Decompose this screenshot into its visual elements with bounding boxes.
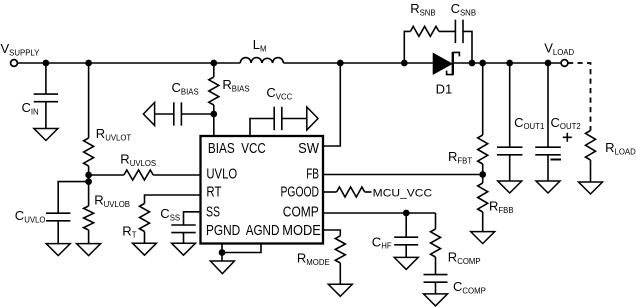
pin label PGND: [206, 223, 240, 239]
svg-text:PGND: PGND: [206, 223, 240, 239]
svg-text:AGND: AGND: [246, 223, 280, 239]
svg-text:SS: SS: [206, 205, 220, 221]
op-amp U1 boost controller IC: [201, 136, 324, 244]
pin label AGND: [246, 223, 280, 239]
capacitor CUVLO: [46, 182, 89, 244]
wire FB: [323, 174, 483, 176]
ground CIN: [34, 129, 58, 141]
ground CCOMP: [424, 294, 448, 306]
node COUT2 junction: [545, 60, 552, 67]
svg-text:CHF: CHF: [372, 234, 392, 250]
wire COMP: [323, 212, 436, 214]
label RLOAD: [605, 140, 636, 156]
label COUT2: [551, 115, 581, 131]
pin label FB: [306, 167, 319, 183]
svg-text:CUVLO: CUVLO: [15, 208, 46, 224]
wire D1 to VLOAD: [454, 62, 561, 64]
label VSUPPLY: [1, 41, 41, 57]
terminal VSUPPLY: [11, 60, 18, 67]
ground CUVLO: [46, 244, 70, 256]
label D1: [436, 82, 453, 97]
svg-text:RUVLOB: RUVLOB: [94, 193, 130, 209]
pin label SS: [206, 205, 220, 221]
resistor RBIAS: [209, 63, 219, 136]
svg-text:FB: FB: [306, 167, 319, 183]
label COUT1: [514, 115, 544, 131]
label CCOMP: [453, 279, 486, 295]
svg-text:COUT1: COUT1: [514, 115, 544, 131]
resistor RT: [140, 195, 201, 243]
ground RMODE: [328, 284, 352, 296]
svg-text:VCC: VCC: [241, 141, 265, 157]
node input junction RBIAS: [210, 60, 217, 67]
resistor RUVLOS: [89, 170, 201, 180]
pin label BIAS: [208, 141, 235, 157]
ground CSS: [172, 243, 196, 255]
ground RFBB: [471, 232, 495, 244]
net label MCU_VCC: [373, 188, 433, 200]
label CIN: [22, 100, 39, 116]
svg-text:LM: LM: [253, 37, 267, 53]
svg-text:COUT2: COUT2: [551, 115, 581, 131]
svg-text:VSUPPLY: VSUPPLY: [1, 41, 41, 57]
label CVCC: [266, 85, 292, 101]
pin label COMP: [283, 205, 319, 221]
svg-text:COMP: COMP: [283, 205, 319, 221]
wire PGND: [221, 244, 223, 253]
label RFBT: [448, 149, 472, 165]
inductor LM: [240, 58, 283, 63]
svg-text:RUVLOT: RUVLOT: [96, 126, 132, 142]
svg-text:MCU_VCC: MCU_VCC: [373, 188, 433, 200]
label CUVLO: [15, 208, 46, 224]
svg-text:CCOMP: CCOMP: [453, 279, 486, 295]
capacitor CBIAS: [155, 102, 214, 125]
svg-text:BIAS: BIAS: [208, 141, 235, 157]
pin label VCC: [241, 141, 265, 157]
node SW junction: [337, 60, 344, 67]
svg-text:RCOMP: RCOMP: [448, 250, 481, 266]
node input junction C_IN: [43, 60, 50, 67]
svg-text:RBIAS: RBIAS: [222, 77, 249, 93]
svg-text:RT: RT: [122, 223, 136, 239]
wire dashed to RLOAD: [568, 63, 591, 131]
svg-text:UVLO: UVLO: [206, 167, 237, 183]
node snubber junction: [401, 60, 408, 67]
resistor RFBT: [478, 63, 488, 175]
svg-text:RLOAD: RLOAD: [605, 140, 636, 156]
pin label SW: [298, 141, 319, 157]
node PGND junction: [219, 249, 226, 256]
svg-text:MODE: MODE: [282, 223, 321, 239]
label CBIAS: [172, 80, 199, 96]
ground COUT2: [536, 181, 560, 193]
capacitor COUT2: [535, 63, 572, 181]
pin label MODE: [282, 223, 321, 239]
label RCOMP: [448, 250, 481, 266]
svg-text:PGOOD: PGOOD: [281, 184, 320, 200]
capacitor CSS: [171, 212, 200, 243]
svg-text:RT: RT: [206, 184, 221, 200]
label CSNB: [451, 1, 476, 17]
label RUVLOB: [94, 193, 130, 209]
pin label UVLO: [206, 167, 237, 183]
svg-text:VLOAD: VLOAD: [544, 41, 574, 57]
label RMODE: [297, 251, 330, 267]
wire VSUPPLY to LM: [17, 62, 240, 64]
svg-text:RSNB: RSNB: [410, 1, 435, 17]
resistor RSNB: [404, 26, 455, 63]
svg-text:RFBT: RFBT: [448, 149, 472, 165]
pin label PGOOD: [281, 184, 320, 200]
svg-text:RUVLOS: RUVLOS: [120, 152, 156, 168]
ground CVCC: [307, 107, 318, 130]
diode D1: [433, 52, 459, 75]
wire SW: [323, 63, 340, 146]
svg-text:CSNB: CSNB: [451, 1, 476, 17]
svg-text:RFBB: RFBB: [489, 199, 514, 215]
ground IC: [210, 253, 234, 274]
ground RUVLOB: [77, 244, 101, 256]
resistor RMODE: [323, 230, 345, 284]
label RSNB: [410, 1, 435, 17]
svg-text:CVCC: CVCC: [266, 85, 292, 101]
capacitor COUT1: [497, 63, 523, 181]
resistor RCOMP: [431, 213, 441, 275]
label LM: [253, 37, 267, 53]
label RUVLOT: [96, 126, 132, 142]
label CSS: [160, 206, 180, 222]
label RT: [122, 223, 136, 239]
ground RT: [133, 243, 157, 255]
svg-text:SW: SW: [298, 141, 319, 157]
node CUVLO tap: [85, 178, 92, 185]
node BIAS junction: [210, 111, 217, 118]
terminal VLOAD: [561, 60, 568, 67]
ground RLOAD: [579, 182, 603, 194]
resistor RFBB: [478, 175, 488, 232]
wire LM to D1: [283, 62, 433, 64]
capacitor CVCC: [250, 107, 307, 136]
node CHF junction: [403, 210, 410, 217]
node RFBT junction: [479, 60, 486, 67]
label RBIAS: [222, 77, 249, 93]
resistor RLOAD: [586, 131, 596, 183]
label RFBB: [489, 199, 514, 215]
node snubber return: [469, 60, 476, 67]
label CHF: [372, 234, 392, 250]
svg-text:RMODE: RMODE: [297, 251, 330, 267]
svg-text:D1: D1: [436, 82, 453, 97]
node FB junction: [479, 171, 486, 178]
resistor RUVLOB: [84, 206, 94, 244]
node input junction UVLO divider: [85, 60, 92, 67]
label RUVLOS: [120, 152, 156, 168]
label VLOAD: [544, 41, 574, 57]
ground CHF: [394, 257, 418, 269]
svg-text:CBIAS: CBIAS: [172, 80, 199, 96]
svg-text:CSS: CSS: [160, 206, 180, 222]
resistor PGOOD pullup: [323, 187, 372, 197]
capacitor CSNB: [455, 20, 472, 63]
wire AGND: [222, 244, 261, 253]
pin label RT: [206, 184, 221, 200]
capacitor CCOMP: [424, 275, 448, 294]
ground COUT1: [498, 181, 522, 193]
resistor RUVLOT: [84, 63, 94, 206]
ground CBIAS: [143, 103, 154, 126]
node COUT1 junction: [506, 60, 513, 67]
capacitor CIN: [34, 63, 58, 129]
capacitor CHF: [394, 213, 418, 257]
node UVLO tap: [85, 172, 92, 179]
